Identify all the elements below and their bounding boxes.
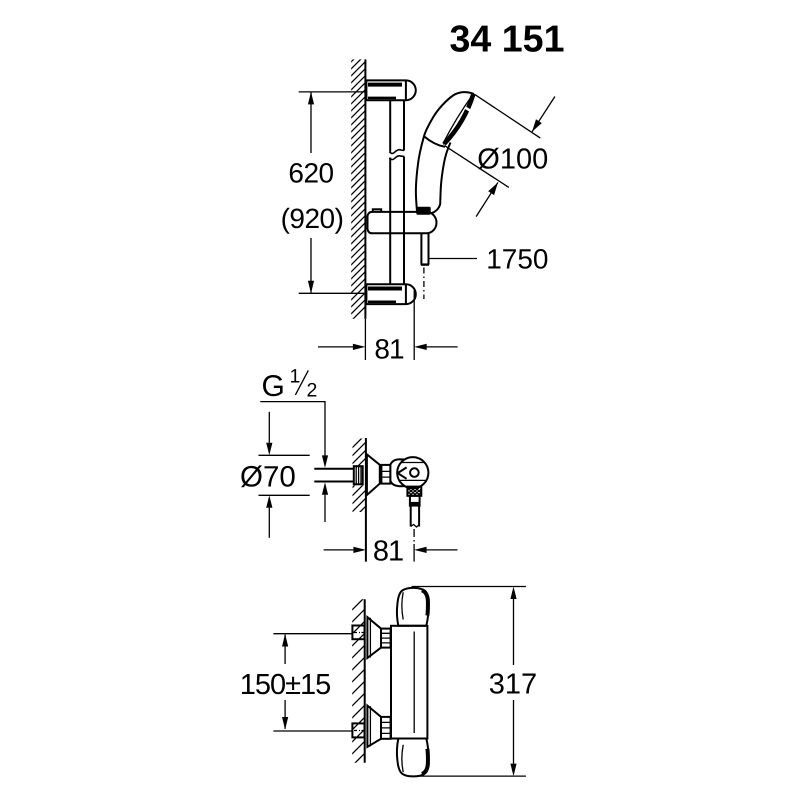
svg-text:Ø70: Ø70 — [240, 460, 296, 493]
svg-text:1: 1 — [290, 366, 301, 388]
svg-text:620: 620 — [288, 158, 333, 189]
svg-text:Ø100: Ø100 — [477, 143, 548, 175]
svg-text:81: 81 — [373, 536, 403, 568]
svg-text:G: G — [262, 370, 285, 403]
svg-text:1750: 1750 — [486, 244, 548, 275]
svg-text:2: 2 — [307, 380, 318, 402]
svg-text:(920): (920) — [281, 203, 344, 234]
svg-text:150±15: 150±15 — [240, 669, 331, 701]
svg-text:34 151: 34 151 — [450, 18, 565, 60]
svg-text:317: 317 — [489, 669, 537, 701]
svg-text:81: 81 — [374, 334, 404, 365]
